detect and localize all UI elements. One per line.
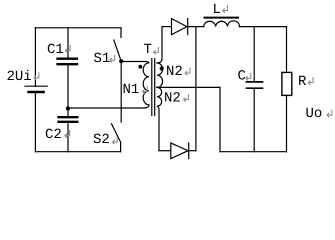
svg-text:C1: C1 <box>47 42 64 58</box>
wire L to top-right corner <box>240 26 287 28</box>
svg-text:Uo: Uo <box>306 106 323 122</box>
wire left vertical (source branch lower) <box>34 93 36 151</box>
capacitor C bottom plate <box>247 87 263 89</box>
wire S1 node down to S2 <box>120 61 122 122</box>
resistor R body <box>282 72 292 95</box>
svg-text:R: R <box>298 74 307 90</box>
node midpoint C1-C2 junction dot <box>66 106 70 110</box>
wire left vertical (source branch upper) <box>34 28 36 86</box>
wire C2 to bottom rail <box>67 123 69 152</box>
switch S1 top stub <box>120 28 122 38</box>
svg-text:S1: S1 <box>94 51 111 67</box>
wire bottom-right rail <box>220 151 287 153</box>
transformer core line left <box>151 59 153 116</box>
svg-text:N1: N1 <box>123 82 140 98</box>
wire right side down to R <box>286 27 288 73</box>
return mark after T <box>153 47 158 55</box>
wire secondary bottom to diode VD2 anode <box>159 150 171 152</box>
wire C filter branch upper <box>253 27 255 81</box>
diode VD1 top triangle <box>172 19 187 35</box>
return mark after N2 top <box>185 68 190 76</box>
wire top-left rail <box>35 27 121 29</box>
return mark after S1 <box>110 55 115 63</box>
wire center tap <box>157 86 220 88</box>
return mark after R <box>308 77 313 85</box>
wire VD1 cathode to inductor <box>188 26 204 28</box>
capacitor C2 top plate <box>59 116 78 118</box>
return mark after N1 <box>142 86 147 94</box>
wire midpoint to primary bottom <box>68 107 144 109</box>
capacitor C1 bottom plate <box>58 63 78 65</box>
wire bottom-left rail <box>35 151 120 153</box>
svg-text:C: C <box>238 69 246 85</box>
polarity dot primary <box>138 65 142 69</box>
polarity dot secondary <box>160 66 164 70</box>
return mark after Uo <box>327 110 332 118</box>
svg-text:S2: S2 <box>93 132 110 148</box>
return mark after L <box>223 5 228 13</box>
diode VD2 bottom triangle <box>171 143 188 159</box>
switch S2 bottom stub <box>120 142 122 152</box>
switch S1 blade <box>114 40 121 61</box>
transformer core line right <box>154 59 156 116</box>
wire S1 node to primary top <box>121 61 144 63</box>
wire secondary top to diode VD1 anode <box>162 26 172 28</box>
capacitor C2 bottom plate <box>59 121 78 123</box>
transformer secondary winding N2 top <box>157 63 163 87</box>
capacitor C top plate <box>247 81 263 83</box>
wire C1 branch upper <box>67 28 69 58</box>
node S1 switch junction dot <box>119 59 123 63</box>
switch S2 blade <box>112 124 121 142</box>
transformer T primary winding N1 <box>143 62 149 109</box>
capacitor C1 top plate <box>58 58 78 60</box>
diode VD2 cathode bar <box>188 143 190 159</box>
transformer secondary top lead <box>157 27 162 63</box>
return mark after 2Ui <box>34 72 39 80</box>
svg-text:T: T <box>144 42 152 58</box>
diode VD1 cathode bar <box>187 19 189 35</box>
return mark after C2 <box>65 130 70 138</box>
wire C1 to midpoint <box>67 65 69 108</box>
return mark after C <box>246 73 251 81</box>
inductor L winding <box>204 21 240 27</box>
return mark after N2 bottom <box>183 94 188 102</box>
svg-text:2Ui: 2Ui <box>7 69 32 85</box>
wire center tap down <box>219 87 221 151</box>
battery source 2Ui thin plate <box>25 85 47 87</box>
wire C2 branch upper <box>67 109 69 117</box>
return mark after C1 <box>65 45 70 53</box>
return mark after S2 <box>112 137 117 145</box>
svg-text:N2: N2 <box>166 64 183 80</box>
svg-text:L: L <box>213 2 221 18</box>
transformer secondary winding N2 bottom <box>157 87 162 150</box>
inductor L core bar <box>204 17 238 19</box>
wire diode cathode join vertical <box>195 27 197 151</box>
svg-text:C2: C2 <box>45 127 62 143</box>
battery source 2Ui thick plate <box>29 91 44 94</box>
wire VD2 cathode to join <box>189 150 196 152</box>
wire C to bottom rail <box>253 89 255 152</box>
wire R bottom to rail <box>286 95 288 151</box>
svg-text:N2: N2 <box>164 91 181 107</box>
